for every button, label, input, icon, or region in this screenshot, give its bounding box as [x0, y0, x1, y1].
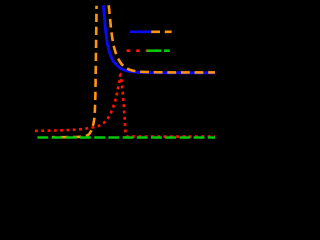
legend: orange dashed sample — [151, 30, 171, 33]
orange dashed divergence (left branch, vertical asymptote) — [52, 6, 97, 137]
green dash-dot baseline — [37, 136, 215, 139]
blue solid curve (diverging solution) — [103, 5, 215, 73]
red dotted spike curve — [35, 75, 215, 137]
orange dashed curve hugging blue — [109, 5, 215, 72]
legend: red dotted sample — [127, 49, 149, 52]
legend: green dash-dot sample — [147, 49, 170, 52]
legend: blue solid sample — [130, 30, 151, 33]
